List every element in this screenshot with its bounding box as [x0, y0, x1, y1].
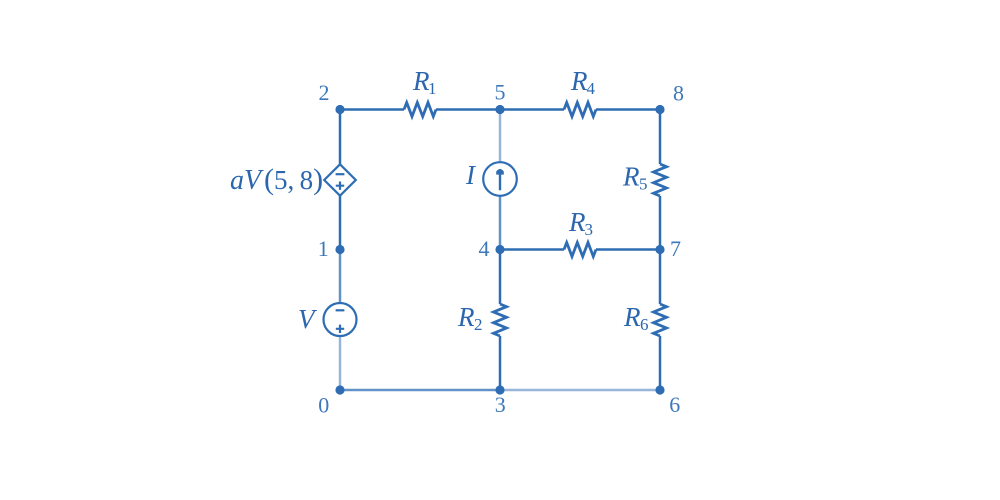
node 3 junction dot [495, 385, 504, 394]
svg-text:5: 5 [495, 80, 506, 105]
voltage source V circle [324, 303, 357, 336]
resistor R3 body [564, 243, 596, 257]
svg-text:4: 4 [587, 79, 596, 98]
node 1 junction dot [335, 245, 344, 254]
voltage source plus sign [336, 325, 344, 333]
svg-text:7: 7 [670, 236, 681, 261]
label R5 [622, 162, 648, 194]
svg-text:1: 1 [428, 79, 437, 98]
svg-text:2: 2 [474, 315, 483, 334]
current source arrow stem [499, 174, 501, 191]
wire R1 to node5 [436, 108, 500, 111]
wire node4 to R3 [500, 248, 564, 251]
label R2 [457, 302, 483, 334]
wire R4 to node8 [596, 108, 660, 111]
node 0 junction dot [335, 385, 344, 394]
svg-text:V: V [298, 304, 318, 334]
wire node2 to source top [339, 110, 342, 165]
wire R3 to node7 [596, 248, 660, 251]
wire R5 to node7 [659, 196, 662, 250]
dependent source aV(5,8) diamond [324, 164, 356, 195]
resistor R4 body [564, 103, 596, 117]
wire node1 to V source (medium) [339, 250, 342, 304]
node 4 junction dot [495, 245, 504, 254]
svg-text:R: R [457, 302, 475, 332]
voltage source minus sign [336, 309, 345, 311]
svg-text:2: 2 [319, 80, 330, 105]
wire R2 to node3 [499, 336, 502, 390]
wire node7 to R6 [659, 250, 662, 305]
svg-text:6: 6 [640, 315, 649, 334]
node 2 junction dot [335, 105, 344, 114]
current source arrowhead [496, 169, 504, 175]
wire V source to node0 (light) [339, 336, 342, 390]
wire node3 to node6 (light) [500, 389, 660, 392]
svg-text:(5, 8): (5, 8) [264, 163, 323, 196]
node 7 junction dot [655, 245, 664, 254]
svg-text:3: 3 [585, 220, 594, 239]
node 6 junction dot [655, 385, 664, 394]
wire source bottom to node1 [339, 196, 342, 250]
svg-text:R: R [623, 302, 641, 332]
resistor R6 body [654, 304, 667, 336]
label R6 [623, 302, 649, 334]
svg-text:aV: aV [230, 165, 264, 196]
resistor R2 body [494, 304, 507, 336]
svg-text:4: 4 [479, 236, 490, 261]
svg-text:I: I [465, 160, 477, 190]
svg-text:R: R [570, 66, 588, 96]
node 5 junction dot [495, 105, 504, 114]
dependent source minus sign [336, 173, 345, 175]
svg-text:6: 6 [669, 392, 680, 417]
svg-text:R: R [622, 162, 640, 192]
node 8 junction dot [655, 105, 664, 114]
wire I source to node4 (medium) [499, 196, 502, 250]
label R1 [412, 66, 437, 98]
svg-text:3: 3 [495, 392, 506, 417]
wire node5 to R4 [500, 108, 564, 111]
wire node5 to I source (light) [499, 110, 502, 163]
wire node0 to node3 (medium) [340, 389, 500, 392]
svg-text:5: 5 [639, 175, 648, 194]
current source I circle [483, 162, 517, 196]
wire node4 to R2 [499, 250, 502, 305]
label R3 [568, 207, 593, 239]
svg-text:0: 0 [318, 393, 329, 418]
dependent source plus sign [336, 182, 344, 190]
wire node2 to R1 [340, 108, 404, 111]
svg-text:R: R [568, 207, 586, 237]
wire node8 to R5 [659, 110, 662, 165]
label R4 [570, 66, 596, 98]
svg-text:1: 1 [318, 236, 329, 261]
resistor R5 body [654, 164, 667, 196]
svg-text:8: 8 [673, 81, 684, 106]
resistor R1 body [404, 103, 436, 117]
wire R6 to node6 [659, 336, 662, 390]
